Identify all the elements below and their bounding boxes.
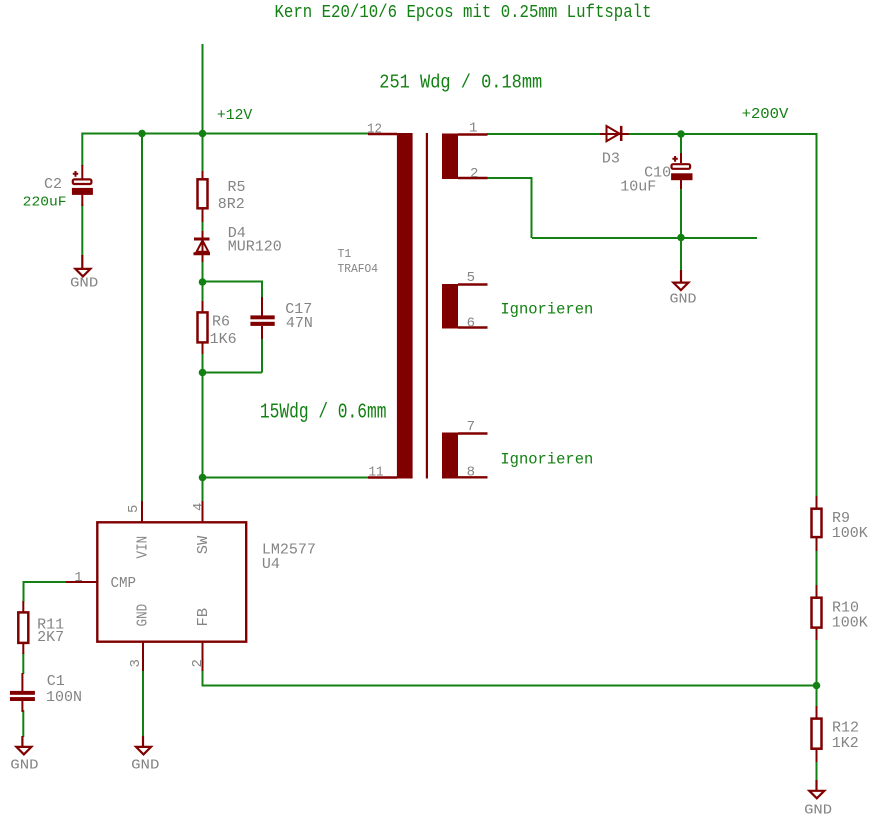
- wire GND pin3 vertical: [142, 670, 144, 737]
- ground GND (C2): [75, 255, 90, 276]
- svg-text:GND: GND: [136, 604, 152, 627]
- svg-text:100K: 100K: [832, 615, 868, 632]
- svg-text:1K6: 1K6: [210, 331, 237, 348]
- svg-text:1: 1: [469, 120, 477, 136]
- svg-text:MUR120: MUR120: [228, 239, 282, 256]
- wire FB net: [203, 670, 817, 686]
- svg-text:1: 1: [74, 570, 82, 586]
- svg-text:5: 5: [126, 505, 142, 513]
- svg-text:+200V: +200V: [742, 107, 789, 123]
- ground GND (C1): [16, 736, 31, 754]
- ground GND (C10): [673, 270, 688, 290]
- wire pin2 from transformer: [487, 178, 532, 238]
- svg-text:Ignorieren: Ignorieren: [500, 451, 593, 469]
- node junction C10/pin2 net: [677, 234, 685, 242]
- svg-text:FB: FB: [196, 607, 212, 626]
- svg-text:GND: GND: [670, 291, 697, 307]
- capacitor C2: [72, 165, 93, 206]
- svg-text:7: 7: [467, 419, 475, 435]
- resistor R11: [18, 601, 28, 654]
- svg-text:R5: R5: [228, 179, 246, 196]
- wire C10 top: [680, 134, 682, 154]
- ground GND (R12): [809, 780, 824, 798]
- op-amp U4 LM2577 box: [97, 522, 246, 641]
- node junction FB / divider: [813, 682, 821, 690]
- wire +12V rail top: [82, 133, 368, 135]
- transformer T1 left winding: [397, 133, 413, 479]
- svg-text:15Wdg / 0.6mm: 15Wdg / 0.6mm: [260, 402, 387, 425]
- svg-text:GND: GND: [10, 758, 38, 774]
- svg-text:100N: 100N: [46, 689, 82, 706]
- resistor R6: [198, 301, 208, 354]
- pin name FB: [196, 607, 212, 626]
- svg-text:U4: U4: [262, 556, 280, 573]
- pin name VIN: [136, 536, 152, 559]
- svg-text:100K: 100K: [832, 525, 868, 542]
- capacitor C1: [10, 673, 35, 712]
- node junction pin11 / SW: [199, 474, 207, 482]
- pin name SW: [196, 535, 212, 554]
- transformer pin stubs right: [458, 135, 488, 478]
- svg-text:11: 11: [369, 465, 384, 481]
- svg-text:1K2: 1K2: [832, 735, 859, 752]
- wire pin1 to D3: [487, 133, 601, 135]
- wire pin2 net horizontal: [532, 237, 757, 239]
- pin number 4 (SW): [191, 503, 207, 511]
- transformer T1 winding 1-2: [442, 134, 458, 180]
- svg-text:TRAFO4: TRAFO4: [338, 263, 379, 276]
- wire C17 branch: [203, 282, 263, 373]
- transformer T1 winding 7-8: [442, 433, 458, 479]
- U4 pin stubs: [66, 501, 203, 671]
- pin number 3 (GND): [128, 659, 144, 667]
- svg-text:8R2: 8R2: [218, 196, 245, 213]
- node junction R6 bottom / C17: [199, 369, 207, 377]
- svg-text:D3: D3: [602, 151, 620, 168]
- svg-text:5: 5: [467, 270, 475, 286]
- svg-text:+12V: +12V: [217, 108, 253, 124]
- node junction +12V/R5 branch: [199, 130, 207, 138]
- svg-text:2: 2: [190, 659, 206, 667]
- svg-text:Ignorieren: Ignorieren: [500, 300, 593, 318]
- svg-text:220uF: 220uF: [23, 195, 67, 211]
- resistor R9: [812, 496, 822, 551]
- svg-text:GND: GND: [131, 758, 159, 774]
- svg-text:4: 4: [191, 503, 207, 511]
- svg-text:2K7: 2K7: [37, 629, 64, 646]
- svg-text:C2: C2: [44, 176, 62, 193]
- wire C2 top: [81, 133, 83, 167]
- pin number 5 (VIN): [126, 505, 142, 513]
- wire C2 bottom to GND: [81, 204, 83, 256]
- svg-text:VIN: VIN: [136, 536, 152, 559]
- svg-text:Kern E20/10/6 Epcos mit 0.25mm: Kern E20/10/6 Epcos mit 0.25mm Luftspalt: [275, 2, 652, 23]
- wire pin11 horizontal: [203, 477, 369, 479]
- svg-text:GND: GND: [804, 803, 832, 817]
- resistor R5: [198, 171, 208, 222]
- wire CMP net: [23, 582, 66, 737]
- node junction R6 top / C17: [199, 278, 207, 286]
- wire C10 bottom to junction: [680, 188, 682, 272]
- ground GND (pin3): [136, 736, 151, 754]
- wire +12V stub up: [202, 44, 204, 134]
- diode D4: [194, 231, 211, 262]
- svg-text:R6: R6: [212, 313, 230, 330]
- svg-text:T1: T1: [338, 248, 352, 261]
- svg-text:10uF: 10uF: [620, 179, 656, 196]
- node junction D3/C10: [677, 130, 685, 138]
- wire VIN vertical: [141, 134, 143, 503]
- capacitor C17: [250, 297, 274, 339]
- svg-text:SW: SW: [196, 535, 212, 554]
- resistor R12: [812, 706, 822, 762]
- node junction +12V/C2 branch: [138, 130, 146, 138]
- transformer pin stubs left: [368, 134, 397, 478]
- pin name GND: [136, 604, 152, 627]
- svg-text:2: 2: [470, 166, 478, 182]
- svg-text:8: 8: [467, 465, 475, 481]
- transformer T1 winding 5-6: [442, 284, 458, 329]
- svg-text:12: 12: [367, 121, 382, 137]
- svg-text:GND: GND: [70, 276, 98, 292]
- svg-text:47N: 47N: [286, 315, 313, 332]
- svg-text:C1: C1: [47, 673, 65, 690]
- svg-text:6: 6: [467, 315, 475, 331]
- svg-text:3: 3: [128, 659, 144, 667]
- transformer T1 core: [426, 133, 428, 479]
- diode D3: [600, 126, 629, 141]
- wire D3 to +200V corner and right rail: [628, 134, 817, 781]
- pin number 2 (FB): [190, 659, 206, 667]
- svg-text:CMP: CMP: [111, 576, 137, 592]
- capacitor C10: [671, 153, 692, 189]
- wire R5 chain verticals: [202, 134, 204, 503]
- svg-text:251 Wdg / 0.18mm: 251 Wdg / 0.18mm: [379, 72, 542, 94]
- resistor R10: [812, 585, 822, 640]
